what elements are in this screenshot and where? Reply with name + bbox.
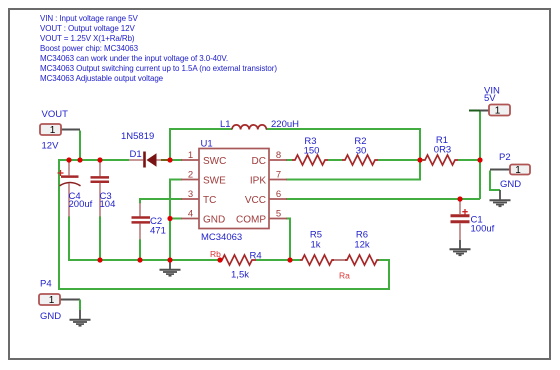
wire pin 3 to C2 [140, 199, 182, 204]
svg-text:1: 1 [50, 125, 56, 136]
capacitor C4 [58, 160, 81, 217]
P2 labels [499, 152, 521, 190]
wire C3 lower [99, 216, 101, 260]
wire R3 to R2 [328, 159, 342, 161]
R1 labels [434, 135, 451, 156]
svg-text:1: 1 [49, 295, 55, 306]
svg-text:150: 150 [304, 146, 320, 157]
VOUT labels [42, 109, 69, 152]
svg-text:30: 30 [356, 146, 367, 157]
resistor R5 [300, 255, 347, 265]
svg-text:471: 471 [150, 226, 166, 237]
svg-text:Ra: Ra [339, 271, 350, 281]
node pin2/pin4 junction [167, 216, 172, 221]
net label Ra [339, 271, 350, 281]
svg-text:IPK: IPK [250, 176, 266, 187]
svg-text:MC34063 Adjustable output volt: MC34063 Adjustable output voltage [40, 74, 164, 83]
capacitor C1 [451, 199, 470, 240]
svg-text:2: 2 [188, 170, 193, 181]
node C3 bottom [97, 257, 102, 262]
svg-text:P2: P2 [499, 152, 511, 163]
port VOUT [40, 124, 80, 136]
node C2 bottom [137, 257, 142, 262]
svg-text:1N5819: 1N5819 [121, 131, 154, 142]
wire VOUT rail [59, 159, 129, 161]
wire top rail left of L1 [169, 128, 232, 130]
U1 pin numbers [188, 150, 281, 220]
svg-text:1,5k: 1,5k [231, 270, 249, 281]
C3 labels [100, 191, 116, 210]
VIN labels [484, 86, 500, 105]
port P2 [490, 165, 530, 191]
svg-text:0R3: 0R3 [434, 145, 451, 156]
resistor R1 [423, 155, 458, 165]
node switch/diode junction [167, 157, 172, 162]
svg-text:GND: GND [203, 215, 225, 226]
resistor R4 [218, 255, 256, 265]
svg-text:D1: D1 [130, 149, 142, 160]
svg-text:L1: L1 [220, 119, 231, 130]
svg-text:7: 7 [276, 170, 281, 181]
net label Rb [210, 249, 221, 259]
svg-text:MC34063 can work under the inp: MC34063 can work under the input voltage… [40, 54, 228, 63]
wire junction to R1 [420, 159, 423, 161]
L1 labels [220, 119, 299, 130]
svg-text:MC34063: MC34063 [201, 232, 242, 243]
svg-text:VOUT: VOUT [42, 109, 69, 120]
resistor R3 [292, 155, 328, 165]
wire R2 to junction [378, 159, 420, 161]
port VIN [469, 105, 510, 117]
svg-text:1: 1 [188, 150, 193, 161]
resistor R6 [345, 255, 379, 265]
node VOUT drop [77, 157, 82, 162]
R2 labels [354, 136, 366, 157]
wire bottom rail [68, 259, 218, 261]
D1 labels [121, 131, 154, 160]
wire C4 lower [68, 216, 70, 261]
wire pin 8 to R3 [286, 159, 292, 161]
svg-text:SWE: SWE [203, 176, 226, 187]
wire R4 to R5 junction [256, 259, 300, 261]
U1 labels [201, 139, 243, 244]
R3 labels [304, 136, 320, 157]
svg-text:Boost power chip: MC34063: Boost power chip: MC34063 [40, 44, 139, 53]
node R2/R1/IPK junction [417, 157, 422, 162]
svg-text:6: 6 [276, 189, 281, 200]
svg-text:COMP: COMP [236, 215, 266, 226]
R4 labels [231, 251, 262, 281]
svg-text:104: 104 [100, 199, 116, 210]
ground for C1 [450, 240, 471, 255]
ground for P2 [490, 190, 511, 206]
svg-text:TC: TC [203, 195, 216, 206]
node C4 tap [66, 157, 71, 162]
JUNCTION DOTS [66, 157, 482, 262]
svg-text:GND: GND [500, 179, 521, 190]
R5 labels [310, 230, 322, 251]
C2 labels [150, 216, 166, 237]
svg-text:VOUT = 1.25V X(1+Ra/Rb): VOUT = 1.25V X(1+Ra/Rb) [40, 34, 135, 43]
wire C2 lower [139, 239, 141, 260]
svg-text:4: 4 [188, 209, 193, 220]
diode D1 [129, 152, 168, 168]
svg-text:U1: U1 [201, 139, 213, 150]
port P4 [39, 294, 80, 310]
wire pin 4 to ground line [170, 218, 182, 220]
node feedback divider junction [287, 257, 292, 262]
U1 pin names [203, 156, 266, 226]
svg-text:1k: 1k [310, 240, 320, 251]
svg-text:DC: DC [252, 156, 266, 167]
wire VIN vertical [470, 111, 480, 200]
svg-text:MC34063 Output switching curre: MC34063 Output switching current up to 1… [40, 64, 277, 73]
info note text [40, 14, 277, 83]
inductor L1 [232, 125, 266, 130]
U1 pin stubs [181, 160, 287, 219]
node ground rail junction [167, 257, 172, 262]
P4 labels [40, 279, 61, 323]
svg-text:VCC: VCC [245, 195, 266, 206]
node Rb label attachment [217, 257, 222, 262]
svg-text:GND: GND [40, 311, 61, 322]
svg-text:3: 3 [188, 189, 193, 200]
resistor R2 [342, 155, 378, 165]
wire R6 to feedback return [59, 159, 389, 289]
wire pin 5 down to divider [286, 219, 290, 261]
svg-text:5: 5 [276, 209, 281, 220]
svg-text:12V: 12V [42, 141, 60, 152]
wire VOUT port drop [79, 131, 81, 162]
C4 labels [69, 191, 93, 210]
wire pin 2 down [170, 180, 182, 261]
R6 labels [354, 230, 370, 251]
svg-text:VOUT : Output voltage 12V: VOUT : Output voltage 12V [40, 24, 136, 33]
wire pin 7 to junction [286, 160, 420, 180]
op-amp U1 MC34063 body [199, 149, 269, 229]
wire switch node to top rail [169, 129, 171, 161]
svg-text:220uH: 220uH [271, 119, 299, 130]
wire R1 to VIN line [458, 159, 480, 161]
svg-text:200uf: 200uf [69, 199, 93, 210]
svg-text:SWC: SWC [203, 156, 226, 167]
capacitor C2 [132, 203, 151, 240]
wire diode to pin 1 [167, 159, 182, 161]
wire top rail down to R2/R1 junction [419, 128, 421, 160]
svg-text:R4: R4 [250, 251, 262, 262]
node R1/VIN junction [477, 157, 482, 162]
svg-text:1: 1 [495, 106, 501, 117]
svg-text:VIN : Input voltage range 5V: VIN : Input voltage range 5V [40, 14, 138, 23]
wire top rail right of L1 [266, 128, 420, 130]
svg-text:100uf: 100uf [471, 224, 495, 235]
svg-text:12k: 12k [354, 240, 370, 251]
ground for P4 [70, 310, 91, 326]
svg-text:P4: P4 [40, 279, 52, 290]
svg-text:1: 1 [515, 165, 521, 176]
node VCC/C1 junction [457, 196, 462, 201]
node C3 tap [97, 157, 102, 162]
svg-text:8: 8 [276, 150, 281, 161]
ground on bottom rail [160, 260, 181, 276]
wire pin 6 VCC line [286, 198, 480, 200]
svg-text:5V: 5V [484, 93, 496, 104]
capacitor C3 [91, 160, 110, 217]
C1 labels [471, 215, 495, 235]
